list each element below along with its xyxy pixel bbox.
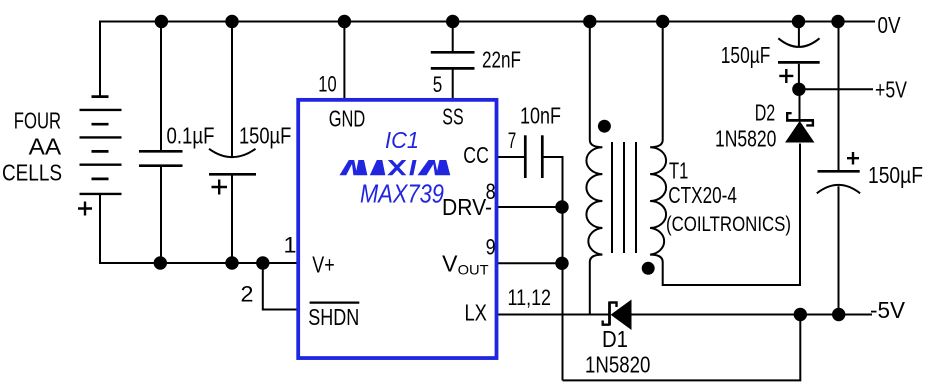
svg-text:0V: 0V (878, 12, 902, 38)
svg-text:MAX739: MAX739 (360, 179, 444, 209)
svg-text:SS: SS (442, 104, 463, 130)
svg-text:D1: D1 (602, 326, 628, 352)
svg-text:8: 8 (486, 179, 496, 204)
svg-text:5: 5 (433, 72, 443, 97)
svg-text:150µF: 150µF (721, 42, 771, 68)
svg-text:2: 2 (241, 282, 254, 307)
svg-text:V: V (442, 251, 458, 277)
svg-text:T1: T1 (669, 158, 688, 184)
svg-text:D2: D2 (755, 100, 776, 126)
svg-text:CC: CC (463, 142, 489, 168)
svg-text:150µF: 150µF (239, 123, 291, 149)
svg-text:V+: V+ (312, 252, 334, 278)
svg-text:9: 9 (486, 235, 496, 260)
svg-text:(COILTRONICS): (COILTRONICS) (666, 213, 791, 236)
svg-text:AA: AA (29, 133, 62, 159)
svg-text:LX: LX (465, 300, 487, 326)
svg-text:FOUR: FOUR (14, 108, 61, 134)
svg-text:OUT: OUT (458, 261, 489, 277)
svg-text:GND: GND (329, 105, 366, 131)
svg-text:150µF: 150µF (868, 162, 923, 188)
svg-text:0.1µF: 0.1µF (167, 123, 215, 149)
svg-text:CELLS: CELLS (2, 160, 62, 186)
svg-text:CTX20-4: CTX20-4 (668, 182, 737, 208)
svg-text:+5V: +5V (875, 77, 907, 103)
svg-text:7: 7 (508, 128, 517, 153)
svg-text:DRV-: DRV- (442, 194, 492, 220)
svg-text:1: 1 (284, 233, 297, 258)
svg-text:1N5820: 1N5820 (715, 126, 776, 152)
svg-text:10nF: 10nF (520, 103, 561, 129)
svg-text:1N5820: 1N5820 (585, 352, 650, 378)
svg-text:SHDN: SHDN (308, 304, 359, 330)
svg-text:-5V: -5V (870, 297, 906, 323)
svg-text:11,12: 11,12 (508, 285, 552, 310)
svg-text:10: 10 (318, 71, 336, 96)
svg-text:22nF: 22nF (482, 46, 521, 72)
svg-text:IC1: IC1 (385, 127, 419, 153)
